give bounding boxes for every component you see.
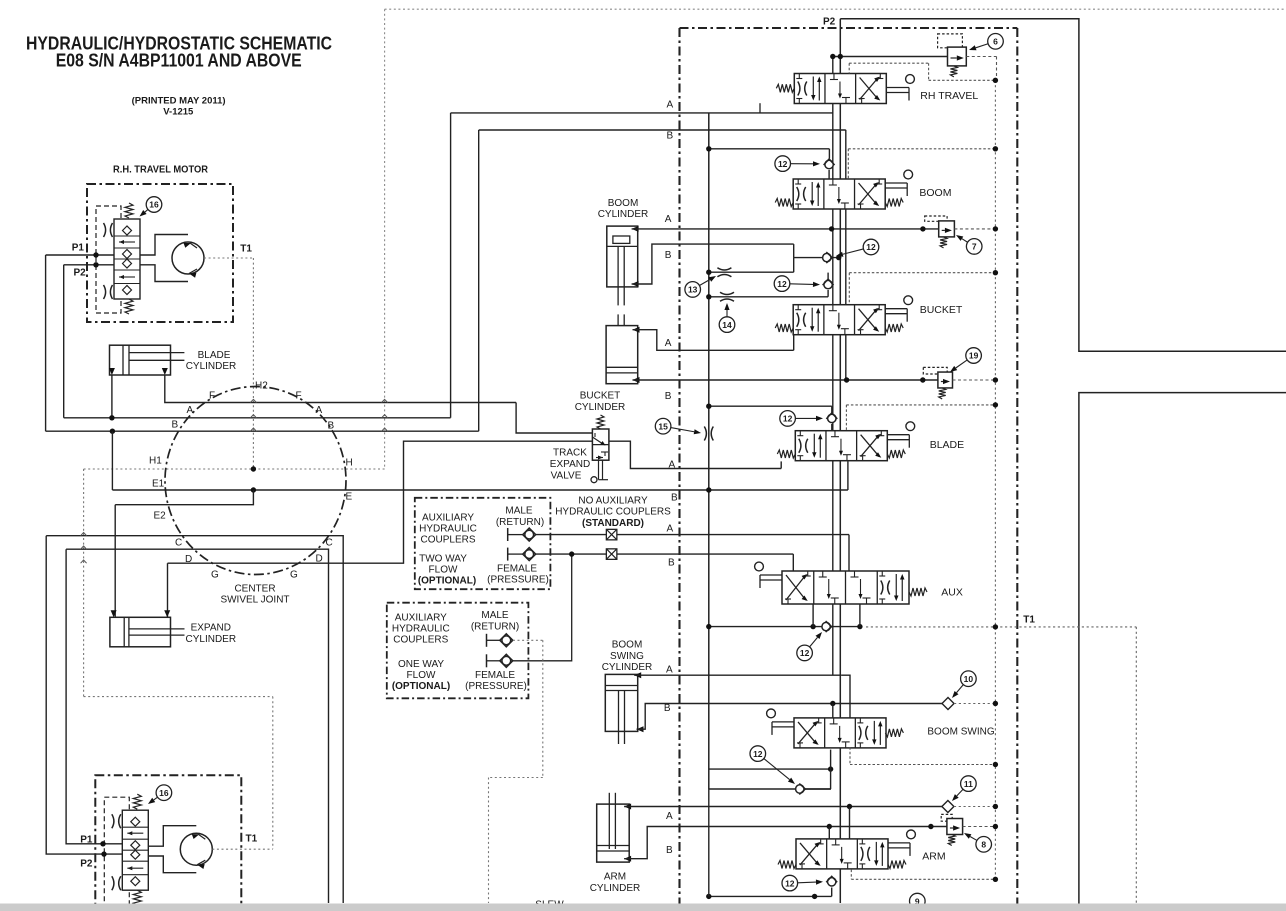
arm pilot dashes [850, 870, 852, 880]
svg-text:SWIVEL JOINT: SWIVEL JOINT [220, 595, 289, 606]
svg-text:MALE: MALE [481, 610, 509, 621]
svg-text:19: 19 [969, 351, 979, 361]
svg-text:A: A [669, 460, 676, 471]
male return coupler [507, 528, 509, 541]
valve bank boundary (dash-dot) [680, 27, 1018, 29]
boom swing B line [637, 726, 644, 732]
svg-text:13: 13 [688, 285, 698, 295]
svg-text:A: A [316, 405, 323, 416]
svg-text:P2: P2 [80, 859, 93, 870]
svg-text:H2: H2 [255, 381, 268, 392]
svg-text:A: A [187, 405, 194, 416]
RH travel tank stubs [759, 103, 761, 113]
svg-text:E: E [346, 492, 353, 503]
arm cylinder [597, 804, 630, 862]
svg-text:G: G [211, 570, 219, 581]
svg-text:10: 10 [964, 674, 974, 684]
svg-text:BOOM: BOOM [612, 640, 643, 651]
no-aux plug B [606, 549, 617, 560]
svg-text:AUXILIARY: AUXILIARY [395, 613, 447, 624]
svg-text:CYLINDER: CYLINDER [598, 209, 649, 220]
svg-text:FEMALE: FEMALE [475, 670, 515, 681]
callout 16 [156, 785, 172, 801]
svg-text:R.H. TRAVEL MOTOR: R.H. TRAVEL MOTOR [113, 165, 209, 176]
one-way male coupler [486, 634, 488, 647]
boom A rail dots + relief 7 [829, 226, 834, 231]
TEV output to bank A [609, 441, 781, 468]
svg-text:12: 12 [783, 414, 793, 424]
center swivel joint circle [165, 387, 346, 575]
svg-text:BLADE: BLADE [198, 350, 231, 361]
svg-text:BOOM SWING: BOOM SWING [927, 727, 994, 738]
svg-text:FLOW: FLOW [407, 670, 436, 681]
relief 6 pilot dashes [966, 56, 996, 58]
callout 12 [774, 276, 790, 292]
L.H. travel motor [95, 775, 241, 911]
callout 12 [775, 156, 791, 172]
bucket cylinder [606, 326, 638, 384]
svg-text:FEMALE: FEMALE [497, 564, 537, 575]
svg-text:A: A [665, 214, 672, 225]
boom cylinder rod break [617, 314, 619, 325]
boom swing feed jog [842, 675, 850, 718]
svg-text:11: 11 [964, 779, 973, 789]
bottom gray bar [0, 904, 1286, 911]
svg-text:AUXILIARY: AUXILIARY [422, 513, 474, 524]
E2 line [115, 490, 253, 505]
svg-text:EXPAND: EXPAND [191, 623, 231, 634]
arm A line [624, 804, 631, 810]
callout 6 [988, 34, 1004, 50]
svg-text:16: 16 [159, 788, 169, 798]
svg-text:P1: P1 [72, 243, 85, 254]
callout 8 [976, 837, 992, 853]
svg-text:15: 15 [658, 421, 668, 431]
valve bank A line top [451, 112, 833, 114]
blade pilot dashes [846, 404, 995, 406]
svg-text:12: 12 [753, 749, 763, 759]
aux couplers one-way (optional) box [387, 603, 529, 699]
svg-text:B: B [671, 493, 678, 504]
callout 11 [961, 776, 977, 792]
svg-text:6: 6 [993, 37, 998, 47]
svg-text:B: B [328, 421, 335, 432]
svg-text:HYDRAULIC: HYDRAULIC [419, 524, 477, 535]
svg-text:(RETURN): (RETURN) [471, 622, 519, 633]
boom swing pilot dashes [849, 747, 851, 764]
wire A up to valve bank A [450, 113, 452, 418]
wire P2 to swivel A [63, 265, 65, 418]
svg-text:A: A [666, 811, 673, 822]
callout 12 [797, 645, 813, 661]
svg-text:P2: P2 [74, 268, 87, 279]
svg-text:TWO WAY: TWO WAY [419, 554, 467, 565]
svg-text:B: B [664, 703, 671, 714]
boom B check 12 line [793, 244, 795, 258]
svg-text:E2: E2 [154, 511, 167, 522]
svg-text:F: F [296, 391, 302, 402]
track expand valve [592, 429, 609, 460]
svg-text:ARM: ARM [604, 872, 626, 883]
orifice 14 line / check 12 [709, 296, 828, 298]
wire blade right port to F [165, 375, 516, 403]
TEV pilot stem [598, 460, 600, 480]
carry rail R3 [832, 57, 834, 675]
wire G to expand cylinder right port [167, 563, 169, 617]
slew feed line [709, 895, 832, 897]
crossing jump marks on dotted lines [382, 399, 388, 402]
callout 14 [719, 317, 735, 333]
blade valve [795, 431, 887, 461]
one-way female coupler [486, 654, 488, 667]
orifice 13 line [709, 271, 794, 273]
svg-text:T1: T1 [1023, 615, 1035, 626]
boom A port line [632, 226, 639, 232]
one-way female feed drop [513, 554, 572, 661]
bucket B port line [633, 377, 640, 383]
C line [46, 536, 343, 903]
svg-text:H: H [346, 458, 353, 469]
svg-text:12: 12 [800, 648, 810, 658]
boom feed line with check 12 [709, 148, 830, 150]
svg-text:BUCKET: BUCKET [920, 304, 963, 316]
svg-text:12: 12 [777, 279, 787, 289]
svg-text:MALE: MALE [505, 506, 533, 517]
callout 12 [782, 875, 798, 891]
T1 dotted from RH motor [204, 257, 253, 259]
carry rail R4 [845, 130, 847, 379]
D line [66, 549, 328, 903]
svg-text:7: 7 [972, 242, 977, 252]
check 11 [942, 801, 954, 813]
svg-text:(PRINTED MAY 2011): (PRINTED MAY 2011) [132, 96, 226, 107]
svg-text:T1: T1 [246, 834, 258, 845]
svg-text:CYLINDER: CYLINDER [575, 402, 626, 413]
svg-text:ARM: ARM [922, 850, 945, 862]
svg-text:CYLINDER: CYLINDER [602, 662, 653, 673]
svg-text:E08 S/N A4BP11001 AND ABOVE: E08 S/N A4BP11001 AND ABOVE [56, 51, 302, 71]
aux A line to bank [536, 534, 849, 536]
svg-text:ONE WAY: ONE WAY [398, 659, 444, 670]
svg-text:(PRESSURE): (PRESSURE) [487, 575, 549, 586]
svg-text:CYLINDER: CYLINDER [590, 883, 641, 894]
svg-text:VALVE: VALVE [551, 471, 582, 482]
svg-text:E1: E1 [152, 479, 165, 490]
svg-text:CENTER: CENTER [234, 584, 275, 595]
svg-text:C: C [175, 538, 182, 549]
svg-text:12: 12 [785, 878, 795, 888]
svg-text:A: A [665, 338, 672, 349]
svg-text:BLADE: BLADE [930, 439, 964, 451]
svg-text:B: B [668, 558, 675, 569]
wire P1 to swivel B [45, 255, 47, 431]
svg-text:SWING: SWING [610, 651, 644, 662]
one-way male return dotted drain [513, 639, 543, 641]
svg-text:RH TRAVEL: RH TRAVEL [920, 90, 978, 102]
relief 8 line [829, 826, 947, 828]
svg-text:BOOM: BOOM [608, 198, 639, 209]
svg-text:NO AUXILIARY: NO AUXILIARY [578, 496, 648, 507]
aux valve [782, 571, 909, 604]
wire F drop to track expand valve [516, 403, 592, 434]
T return dotted rail [994, 80, 996, 879]
svg-text:(RETURN): (RETURN) [496, 517, 544, 528]
wire D to LH motor P1 [66, 549, 103, 844]
valve bank B line top [479, 129, 846, 131]
callout 10 [961, 671, 977, 687]
callout 12 [750, 746, 766, 762]
P2 pressure rail [839, 19, 841, 903]
outer dotted boundary (tank return envelope) [385, 8, 1286, 10]
callout 12 [780, 411, 796, 427]
svg-text:F: F [209, 391, 215, 402]
arm valve [796, 839, 888, 869]
RH travel valve [794, 74, 886, 104]
svg-text:TRACK: TRACK [553, 448, 587, 459]
aux couplers two-way (optional) box [415, 498, 551, 589]
E line [112, 489, 848, 491]
swivel A line [64, 417, 451, 419]
aux B line to bank [536, 553, 794, 555]
boom pilot dashes [848, 148, 995, 150]
wire B up to valve bank B [478, 130, 480, 431]
boom valve [793, 179, 885, 209]
svg-text:A: A [667, 524, 674, 535]
relief valve 6 [938, 34, 963, 48]
svg-text:COUPLERS: COUPLERS [393, 635, 448, 646]
svg-text:8: 8 [981, 840, 986, 850]
female pressure coupler [507, 548, 509, 561]
svg-text:(PRESSURE): (PRESSURE) [465, 681, 527, 692]
svg-text:COUPLERS: COUPLERS [420, 535, 475, 546]
aux drain line [709, 626, 860, 628]
svg-text:B: B [666, 845, 673, 856]
blade cylinder [110, 345, 171, 375]
boom swing A line [634, 672, 641, 678]
callout 15 [655, 418, 671, 434]
svg-text:A: A [666, 664, 673, 675]
svg-text:B: B [665, 391, 672, 402]
right block lower outline [1079, 393, 1286, 904]
svg-text:FLOW: FLOW [429, 565, 458, 576]
T1 dotted from LH motor [212, 848, 272, 850]
svg-text:(OPTIONAL): (OPTIONAL) [418, 576, 476, 587]
no-aux plug A [606, 529, 617, 540]
svg-text:T1: T1 [240, 244, 252, 255]
svg-text:BOOM: BOOM [919, 187, 951, 199]
svg-text:P2: P2 [823, 17, 836, 28]
boom swing valve [794, 718, 886, 748]
callout 13 [685, 282, 701, 298]
callout 7 [966, 239, 982, 255]
svg-text:B: B [172, 420, 179, 431]
boom B port line [632, 281, 639, 287]
svg-text:AUX: AUX [941, 587, 963, 599]
bucket valve [793, 305, 885, 335]
svg-text:HYDRAULIC COUPLERS: HYDRAULIC COUPLERS [555, 507, 671, 518]
supply line to RH travel [833, 56, 948, 58]
wire blade left port to A [111, 375, 113, 418]
svg-text:BUCKET: BUCKET [580, 391, 621, 402]
svg-text:(STANDARD): (STANDARD) [582, 518, 644, 529]
svg-text:HYDRAULIC: HYDRAULIC [392, 624, 450, 635]
check 12 arm feed loop [709, 768, 831, 770]
bucket pilot dashes [849, 272, 995, 274]
wire C to LH motor P2 [46, 536, 104, 854]
svg-text:G: G [290, 570, 298, 581]
callout 9 [910, 893, 926, 909]
dotted return line H to left [84, 468, 385, 470]
svg-text:B: B [667, 131, 674, 142]
svg-text:12: 12 [866, 242, 876, 252]
svg-text:14: 14 [722, 320, 732, 330]
svg-text:C: C [326, 538, 333, 549]
blade feed line [709, 405, 832, 407]
wire E2 down to expand cylinder [114, 505, 116, 618]
expand cylinder [110, 617, 171, 647]
callout 19 [966, 348, 982, 364]
svg-text:V-1215: V-1215 [163, 107, 194, 118]
arm B line [624, 856, 631, 862]
T1 dotted to bottom right [995, 626, 1136, 628]
wire B drop to E1 [111, 431, 113, 490]
svg-text:H1: H1 [149, 456, 162, 467]
svg-text:CYLINDER: CYLINDER [186, 361, 237, 372]
RH travel pilot dotted box [849, 62, 928, 64]
svg-text:CYLINDER: CYLINDER [186, 634, 237, 645]
bucket B rail dots + relief 19 [844, 377, 849, 382]
svg-text:A: A [667, 100, 674, 111]
aux drain dotted to T rail [866, 626, 995, 628]
G line [168, 441, 593, 563]
swivel B line [46, 430, 479, 432]
svg-text:B: B [665, 250, 672, 261]
callout 16 [146, 197, 162, 213]
svg-text:(OPTIONAL): (OPTIONAL) [392, 681, 450, 692]
svg-text:P1: P1 [80, 834, 93, 845]
orifice 15 on return rail [704, 427, 706, 441]
callout 12 [863, 239, 879, 255]
return rail R1 [708, 113, 710, 789]
svg-text:16: 16 [149, 200, 159, 210]
svg-text:EXPAND: EXPAND [550, 459, 590, 470]
bucket A port line [633, 327, 640, 333]
svg-text:12: 12 [778, 159, 788, 169]
check 10 [942, 698, 954, 710]
right block upper outline [840, 19, 1286, 352]
